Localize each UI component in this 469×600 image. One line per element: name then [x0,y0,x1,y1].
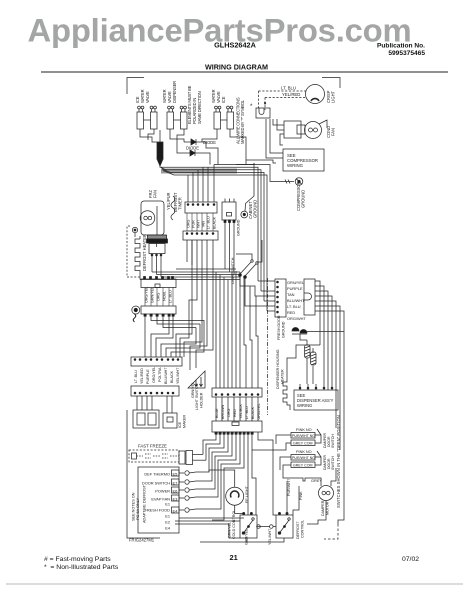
evaporator fan motor M2 [140,190,164,235]
terminal E5 [172,470,180,476]
svg-text:* = Non-Illustrated Parts: * = Non-Illustrated Parts [44,564,119,571]
svg-text:PINK NO: PINK NO [296,428,312,432]
lamp holder housing [133,410,159,428]
svg-text:GROUND: GROUND [282,321,286,338]
water tube heater R3 (hatched) [305,340,311,370]
schematic frame bottom-right dashed corner [324,524,338,539]
svg-text:FAN: FAN [331,128,336,136]
svg-text:E1: E1 [165,502,170,507]
svg-text:LIGHT: LIGHT [331,90,336,103]
wire left drops into CN-L [236,240,275,311]
alarm buzzer (triangle) [188,371,205,398]
schematic frame top-left corner [127,78,144,95]
wire drops to fresh food section [258,181,267,311]
wire damper switches to motor [252,435,336,524]
damper door switch SW-B [291,450,335,470]
wire verticals bundle to strip A [216,271,258,388]
svg-text:DEFROST HEATER: DEFROST HEATER [142,234,147,271]
connector strip B [212,421,262,434]
wire cond fan leads [273,119,284,125]
svg-text:PURPLE: PURPLE [146,369,150,384]
svg-text:RED: RED [287,310,295,315]
svg-text:COLD CONTROL: COLD CONTROL [232,510,236,539]
svg-text:ORG/WHT: ORG/WHT [287,316,306,321]
svg-text:PURPLE: PURPLE [287,286,303,291]
ice maker plug [163,413,187,428]
dispenser housing heater R2 [276,349,290,410]
footer separator line [6,583,463,585]
wire heater leads to dispenser box [287,332,344,385]
svg-text:GRN/YEL: GRN/YEL [287,280,305,285]
control top terminals [243,512,289,514]
svg-text:HOLDER: HOLDER [200,392,204,408]
wire coiled lead (evap fan) [166,192,175,220]
svg-text:SWITCH: SWITCH [331,434,335,448]
svg-text:GLHS2642A: GLHS2642A [214,41,257,50]
svg-text:E2: E2 [165,520,170,525]
connector strip C2 (defrost timer bottom) [183,231,218,277]
svg-text:DEFROST: DEFROST [296,521,300,539]
wire YEL/RED to crisp light [264,92,306,110]
light switch S1 [231,257,258,284]
terminal E6 [172,487,180,493]
svg-text:BLUE: BLUE [215,408,219,418]
wire controls bottom leads [200,481,344,542]
svg-text:ORG/YEL: ORG/YEL [152,367,156,383]
door ground clip [292,328,307,334]
svg-text:FRESH DOOR: FRESH DOOR [277,315,281,340]
harness plug P1 (black connector) [157,130,163,166]
diode D1 [184,139,216,145]
solenoid valve V1 [137,106,157,129]
svg-text:E1: E1 [165,514,170,519]
svg-text:PUR/WHT NO: PUR/WHT NO [292,434,315,438]
svg-text:BLU/WHT: BLU/WHT [287,298,305,303]
solenoid valve V2 [167,106,187,129]
svg-text:SAME DIRECTION: SAME DIRECTION [197,91,202,124]
svg-text:FF LIGHT: FF LIGHT [245,485,249,503]
svg-text:FAST FREEZE: FAST FREEZE [138,444,167,449]
svg-text:DAMPER: DAMPER [321,500,325,516]
svg-text:CONTROL: CONTROL [301,520,305,538]
svg-text:DOOR SWITCH: DOOR SWITCH [142,481,170,486]
condenser fan motor M1 [284,120,336,139]
svg-text:21: 21 [230,553,238,562]
svg-text:SWITCHES SHOWN IN THE “OPEN” P: SWITCHES SHOWN IN THE “OPEN” POSITION [336,415,341,508]
connector J1 with * marks [250,103,270,118]
svg-text:POWER: POWER [155,489,170,494]
wire evap fan leads down [152,255,161,277]
bottom horizontal bundle [175,518,244,538]
svg-text:PUR/WHT NO: PUR/WHT NO [292,456,315,460]
svg-text:ICE: ICE [221,96,226,103]
svg-text:DEF THERMO: DEF THERMO [144,472,170,477]
svg-text:PINK: PINK [299,491,303,500]
svg-text:LT. BLU: LT. BLU [287,304,301,309]
svg-text:MAKER: MAKER [183,415,187,428]
connector strip F [131,386,179,396]
wire D2 fanout to strip E [145,316,204,357]
svg-text:WIRING: WIRING [287,163,304,168]
wire between controls [245,527,277,546]
terminal E7 [172,479,180,485]
connector strip E [131,357,182,366]
freezer ground eyelet G5 [132,227,137,237]
svg-text:LIGHT SWITCH: LIGHT SWITCH [231,257,235,284]
svg-text:POLTRA: POLTRA [158,367,162,382]
wire bundle jogs to strip E [176,240,213,370]
defrost limit control S3 [276,515,305,539]
svg-text:LT. BLU: LT. BLU [134,370,138,383]
svg-text:YEL/BLK: YEL/BLK [239,403,243,419]
svg-text:E6: E6 [173,488,179,493]
wire D1 to D2 pins [145,288,173,307]
water tube heater R4 (hatched) [311,348,317,372]
fresh door ground label [277,315,286,340]
schematic frame top-right corner [322,78,340,89]
svg-text:DISPENSER HOUSING: DISPENSER HOUSING [276,349,280,389]
connector strip D1 [141,277,176,288]
svg-text:FAN: FAN [153,190,158,198]
fast freeze switch (dashed) [129,450,179,462]
fresh food connector CN-L [275,279,286,317]
dispenser assy wiring box [294,384,338,410]
svg-text:YEL/RED: YEL/RED [140,368,144,384]
svg-text:FRESH FOOD: FRESH FOOD [144,508,170,513]
svg-text:BLU/WHT: BLU/WHT [164,367,168,384]
svg-text:5995375465: 5995375465 [388,50,425,57]
svg-text:GRN/YEL: GRN/YEL [228,522,232,538]
fresh food connector CN-R [304,279,315,315]
connector strip D2 [141,306,176,316]
diode D2 [183,146,201,157]
wire drop to cabinet ground [246,163,255,204]
connector C3 (right small) [222,199,241,275]
svg-text:E4: E4 [165,526,171,531]
svg-text:ICE: ICE [178,421,182,428]
wire D2 pins right jogs [151,316,200,328]
connector strip C1 (defrost timer top) [185,165,217,214]
strip D1 wire labels [145,287,173,303]
svg-text:VALVE: VALVE [145,91,150,103]
svg-text:RED: RED [233,409,237,417]
wire ff light leads [209,470,244,514]
svg-text:LT. BLU: LT. BLU [281,86,296,91]
svg-text:GRN/YEL: GRN/YEL [245,529,249,545]
connector strip A [212,388,262,397]
svg-text:YEL/WHT: YEL/WHT [176,367,180,384]
defrost heater R1 [127,226,147,280]
wire strip F to lamp holders [137,396,172,413]
defrost thermostat TH1 [147,235,168,256]
wire valve V3 to diode bus [202,129,217,142]
wire C1 to C2 pins [187,213,213,231]
ground eyelet G4 [132,306,140,322]
damper door switch SW-A [291,428,335,448]
wire strip B staircase fanout [196,432,276,520]
svg-text:FRIG2427M1: FRIG2427M1 [129,538,155,543]
svg-text:LIGHT SWITCH: LIGHT SWITCH [195,383,199,410]
compressor ground G1 [283,178,306,211]
svg-text:YEL/PUR: YEL/PUR [166,192,171,210]
wire to compressor box [270,119,283,153]
solenoid valve V3 [214,106,234,129]
svg-text:GRN/YEL: GRN/YEL [257,403,261,419]
svg-text:07/02: 07/02 [402,556,419,563]
svg-text:GROUND: GROUND [301,190,306,208]
svg-text:ADAPTIVE DEFROST: ADAPTIVE DEFROST [143,484,147,523]
svg-text:E3: E3 [173,496,179,501]
wire strip A to strip B [216,397,258,421]
svg-text:E7: E7 [173,480,179,485]
door boundary dash-dot line [267,278,269,415]
strip A wire labels [215,403,261,419]
strip C1 wire labels [187,216,217,229]
cold control S2 [228,510,258,539]
svg-text:DIODE: DIODE [186,146,199,151]
svg-text:GROUND: GROUND [253,200,258,218]
compressor wiring box [283,149,324,171]
svg-text:TAN: TAN [287,292,295,297]
frame left border (bottom) [127,410,160,538]
fresh food light [226,485,249,505]
light switch holder label [195,383,204,410]
wire diode D2 down [201,153,210,165]
svg-text:GREY COM: GREY COM [293,442,313,446]
svg-text:PUR/WHT: PUR/WHT [287,478,291,496]
svg-text:Publication No.: Publication No. [377,43,425,50]
fresh food connector wire labels [287,280,306,321]
ground eyelet G3 (evap) [241,204,248,218]
lamp crisp light [306,85,336,104]
svg-text:ORG: ORG [227,408,231,417]
fast freeze terminal block [179,451,206,465]
svg-text:DIODE: DIODE [203,140,216,145]
junction dots between controls [257,525,261,529]
svg-text:# = Fast-moving Parts: # = Fast-moving Parts [44,556,111,563]
svg-text:WIRING: WIRING [297,403,312,408]
wire bundle extra strands [161,168,230,170]
strip E wire labels [134,367,180,384]
svg-text:YEL/RED: YEL/RED [282,92,300,97]
wire CN-R fanout right [315,281,344,486]
svg-text:E4: E4 [173,508,179,513]
svg-text:TIMER: TIMER [178,197,183,210]
svg-text:SEE NOTES ON: SEE NOTES ON [132,492,136,521]
svg-text:DISPENSER: DISPENSER [172,81,177,103]
svg-text:BLACK: BLACK [170,370,174,383]
wire valve V1 to bus [140,129,157,142]
svg-text:GROUND: GROUND [237,219,241,236]
wire bundle gray band [161,169,237,174]
svg-text:PG 5A ONLY: PG 5A ONLY [136,497,140,520]
wire bus to right section [160,166,230,167]
wire bundle corner bend [214,160,283,190]
svg-text:SWITCH: SWITCH [331,456,335,470]
wire valve V2 to diodes [170,129,184,142]
wire LT. BLU to crisp light [259,86,307,111]
cabinet ground label [248,200,258,219]
svg-text:BLACK: BLACK [251,406,255,419]
svg-text:BROWN: BROWN [221,405,225,419]
defrost timer label [173,192,183,212]
svg-text:WIRING DIAGRAM: WIRING DIAGRAM [205,63,268,72]
svg-text:YEL/WHT: YEL/WHT [268,528,272,545]
title underline [41,71,448,73]
ADC spade terminals [179,471,196,512]
wire diode D1 right [202,142,218,165]
wire lower bundle [140,269,240,280]
terminal E4 [172,507,180,513]
damper motor M3 [319,486,334,517]
svg-text:GREY COM: GREY COM [293,464,313,468]
svg-text:E5: E5 [173,471,179,476]
svg-text:LT. BLU: LT. BLU [245,406,249,419]
svg-text:PINK NO: PINK NO [296,450,312,454]
ADC board [132,467,180,533]
wire valve V1b down [148,129,154,140]
terminal E3 [172,495,180,501]
